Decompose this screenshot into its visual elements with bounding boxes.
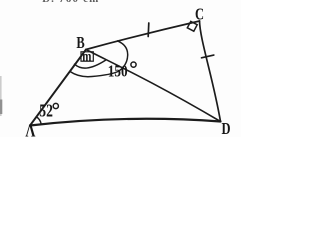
svg-text:52: 52 bbox=[39, 102, 53, 121]
side AB bbox=[30, 50, 86, 126]
degree circle of 150 bbox=[131, 62, 136, 67]
degree circle of 52 bbox=[53, 103, 58, 108]
angle arc 52 at A bbox=[36, 117, 41, 125]
side BC bbox=[86, 21, 200, 50]
small angle arc m at B bbox=[75, 60, 106, 68]
tick mark on BC bbox=[147, 23, 150, 37]
svg-text:C: C bbox=[195, 6, 204, 24]
svg-text:Đ. 760 cm: Đ. 760 cm bbox=[42, 0, 100, 5]
svg-text:m: m bbox=[82, 49, 91, 65]
side AD bbox=[30, 119, 221, 126]
tick mark on CD bbox=[202, 55, 214, 58]
scan artifact: faint page edge left bbox=[0, 76, 2, 116]
scan artifact: dark left-edge blot bbox=[0, 100, 2, 115]
side CD bbox=[200, 21, 221, 122]
svg-text:Λ: Λ bbox=[25, 122, 36, 137]
svg-text:150: 150 bbox=[108, 63, 128, 81]
svg-text:D: D bbox=[222, 120, 231, 137]
large angle arc 150 at B bbox=[70, 41, 128, 77]
right-angle square at C bbox=[187, 21, 197, 31]
box around m label bbox=[81, 52, 93, 61]
diagonal BD bbox=[86, 50, 221, 122]
